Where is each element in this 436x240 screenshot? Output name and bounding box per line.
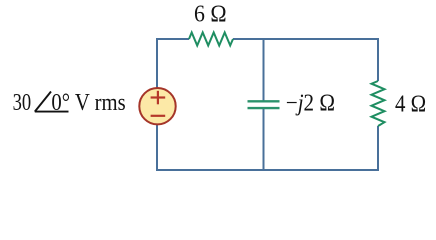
voltage source minus sign (151, 115, 166, 117)
svg-text:30: 30 (13, 90, 32, 116)
wire: bottom horizontal segment (156, 169, 379, 171)
voltage source circle (139, 88, 175, 124)
wire: middle vertical upper segment (263, 38, 265, 101)
wire: top-left horizontal segment (157, 38, 189, 40)
capacitor -j2 ohm (two plates) (248, 101, 280, 108)
wire: top-right horizontal segment (233, 38, 378, 40)
angle symbol diagonal stroke (35, 92, 51, 112)
wire: left vertical lower segment (156, 125, 158, 172)
voltage source plus sign (151, 91, 166, 105)
resistor 6 ohm (zigzag, top) (189, 33, 233, 46)
angle symbol underline stroke (35, 111, 69, 113)
svg-text:−j2 Ω: −j2 Ω (286, 91, 335, 117)
wire: right vertical upper segment (377, 38, 379, 81)
svg-text:4 Ω: 4 Ω (395, 92, 426, 118)
resistor 4 ohm (zigzag, right) (372, 81, 385, 126)
wire: left vertical upper segment (156, 38, 158, 88)
svg-text:6 Ω: 6 Ω (194, 1, 227, 27)
wire: right vertical lower segment (377, 126, 379, 171)
wire: middle vertical lower segment (263, 109, 265, 172)
